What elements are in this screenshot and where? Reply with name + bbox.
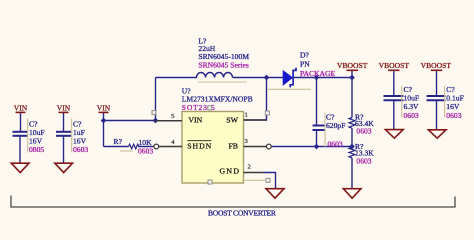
wire divider top — [351, 78, 353, 118]
resistor R3 13.3K zigzag — [349, 147, 355, 158]
tan mark C5 — [401, 86, 403, 118]
svg-text:2: 2 — [248, 164, 251, 171]
ground C6 — [428, 130, 446, 138]
capacitor C3 labels — [326, 113, 345, 149]
wire VIN1 stem — [20, 112, 22, 131]
pin4 negation bubble — [154, 144, 159, 149]
IC U1 pin 4 line — [159, 146, 182, 148]
svg-text:0603: 0603 — [356, 157, 371, 166]
capacitor C3 620pF plates — [313, 126, 325, 131]
wire divider to ground — [351, 158, 353, 188]
capacitor C2 labels — [73, 120, 88, 155]
svg-text:0603: 0603 — [404, 111, 419, 120]
marker square on SW riser — [265, 111, 269, 115]
svg-text:0603: 0603 — [138, 147, 153, 156]
wire GND pin to ground — [264, 173, 276, 189]
resistor R1 10K zigzag — [129, 144, 140, 149]
capacitor C5 10uF plates — [384, 96, 404, 100]
wire top rail inductor to diode — [233, 77, 284, 79]
wire VIN3 stem down to SHDN row — [103, 112, 105, 146]
marker square on VIN wire — [152, 111, 156, 115]
resistor R2 labels — [355, 113, 374, 136]
ground divider — [343, 189, 361, 199]
capacitor C2 1uF plates — [56, 132, 71, 136]
wire VBOOST1 stem — [351, 70, 353, 77]
svg-text:0603: 0603 — [328, 140, 343, 149]
resistor R1 labels — [114, 137, 154, 156]
op IC U1 body — [182, 112, 244, 184]
inductor L1 labels — [198, 37, 249, 70]
capacitor C6 0.1uF plates — [427, 96, 446, 100]
junction node SW rail — [264, 75, 270, 81]
marker square GND corner — [266, 178, 270, 182]
IC U1 labels — [182, 87, 253, 113]
ground C2 — [55, 163, 73, 172]
wire resistor to pin4 bubble — [138, 146, 154, 148]
power port VBOOST3 — [421, 61, 452, 70]
svg-text:0805: 0805 — [29, 145, 44, 154]
tan mark C6 — [444, 86, 446, 118]
wire C6 to ground — [436, 101, 438, 130]
wire C5 to ground — [393, 101, 395, 130]
inductor L1 coil — [197, 73, 233, 78]
ground IC GND — [266, 189, 284, 199]
wire VBOOST2 stem — [393, 70, 395, 96]
svg-text:BOOST CONVERTER: BOOST CONVERTER — [208, 209, 277, 218]
capacitor C5 labels — [404, 85, 420, 120]
IC U1 pin 2 line — [244, 172, 264, 174]
power port VBOOST1 — [337, 61, 368, 70]
svg-text:R?: R? — [114, 137, 123, 146]
pin name SHDN with overline — [187, 141, 211, 151]
junction node C3 FB — [314, 144, 320, 150]
IC U1 pin 3 line — [244, 146, 267, 148]
junction node pin5 riser — [153, 118, 159, 124]
wire SW riser — [244, 78, 267, 121]
ground C5 — [385, 130, 403, 139]
tan mark GND pin — [242, 179, 266, 181]
svg-text:VIN: VIN — [14, 103, 28, 112]
tan mark C3 — [324, 113, 326, 148]
svg-text:SW: SW — [226, 116, 238, 125]
tan mark C1 — [27, 119, 29, 153]
diode D1 labels — [300, 51, 336, 78]
wire SHDN row to resistor — [104, 146, 129, 148]
capacitor C1 labels — [29, 120, 45, 155]
power port VIN2 — [57, 103, 71, 112]
svg-text:SHDN: SHDN — [187, 142, 211, 151]
svg-text:VIN: VIN — [57, 103, 71, 112]
capacitor C1 10uF plates — [13, 132, 28, 136]
svg-text:VBOOST: VBOOST — [421, 61, 452, 70]
wire VIN3 to IC pin5 — [104, 120, 156, 122]
junction node VBOOST rail — [349, 75, 355, 81]
sheet border bottom — [11, 196, 455, 208]
IC U1 pin 5 line — [156, 120, 183, 122]
tan mark under inductor — [198, 81, 247, 83]
wire C2 to ground — [63, 136, 65, 163]
wire C1 to ground — [19, 136, 21, 163]
power port VIN3 — [97, 103, 111, 112]
power port VBOOST2 — [379, 61, 410, 70]
junction node VIN3 branch — [101, 118, 107, 124]
junction node C3 rail — [314, 75, 320, 81]
marker square IC bottom — [208, 180, 212, 184]
svg-text:0603: 0603 — [73, 145, 88, 154]
tan mark C2 — [71, 119, 73, 153]
wire VIN2 stem — [63, 112, 65, 131]
tan mark under R1 — [120, 150, 133, 152]
svg-text:GND: GND — [220, 167, 240, 176]
wire C3 column top — [316, 78, 318, 126]
IC U1 pin 1 line — [244, 119, 267, 121]
tan mark under diode — [267, 88, 311, 90]
svg-text:620pF: 620pF — [326, 121, 345, 130]
svg-text:0603: 0603 — [356, 127, 371, 136]
svg-text:VIN: VIN — [188, 116, 202, 125]
diode D1 schottky — [283, 68, 296, 88]
svg-text:1: 1 — [245, 112, 248, 119]
marker square IC top — [208, 106, 212, 110]
wire VBOOST3 stem — [436, 70, 438, 96]
svg-text:FB: FB — [228, 142, 238, 151]
capacitor C6 labels — [446, 85, 464, 120]
pin3 negation bubble — [266, 144, 271, 149]
svg-text:0603: 0603 — [446, 111, 461, 120]
wire top rail diode to VBOOST — [294, 77, 353, 79]
wire between divider resistors — [351, 128, 353, 147]
wire FB to divider — [272, 146, 353, 148]
svg-text:SRN6045 Series: SRN6045 Series — [198, 61, 248, 70]
power port VIN1 — [14, 103, 28, 112]
svg-text:VBOOST: VBOOST — [379, 61, 410, 70]
resistor R2 63.4K zigzag — [349, 118, 355, 129]
resistor R3 labels — [355, 142, 374, 166]
ground C1 — [11, 163, 29, 172]
svg-text:VBOOST: VBOOST — [337, 61, 368, 70]
svg-text:PACKAGE: PACKAGE — [300, 69, 336, 78]
svg-text:PN: PN — [300, 59, 310, 68]
wire C3 column bottom — [316, 131, 318, 147]
svg-text:VIN: VIN — [97, 103, 111, 112]
junction node FB divider — [349, 144, 355, 150]
wire riser to inductor rail — [155, 78, 157, 121]
wire top rail left of inductor — [156, 77, 198, 79]
